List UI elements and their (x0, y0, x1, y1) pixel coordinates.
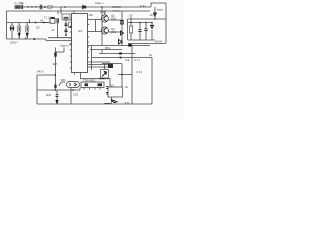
wire emitter Q1 (108, 19, 122, 21)
svg-text:230V~: 230V~ (10, 41, 19, 45)
wire bottom-right rail (128, 43, 166, 45)
resistor R4 (129, 23, 132, 41)
rectifier box D8 (101, 64, 109, 79)
wire rail 75 (37, 74, 56, 76)
transformer T1 (42, 16, 58, 38)
wire IC top stub (73, 11, 75, 14)
wire regulator feed (81, 75, 111, 88)
svg-text:D3: D3 (36, 26, 40, 30)
IC U3 (80, 78, 104, 90)
node J14 (43, 22, 45, 24)
node J12 (54, 74, 56, 76)
wire drop (118, 64, 132, 88)
inductor L2 (112, 6, 121, 8)
node J8 (119, 52, 122, 54)
node J4 (128, 44, 132, 47)
capacitor C5 (138, 23, 141, 41)
bus staircase (88, 46, 153, 71)
node J13 (151, 22, 153, 24)
transistor Q2 (101, 27, 116, 34)
wire secondary box top edge (128, 18, 167, 20)
svg-text:TDA 4601: TDA 4601 (83, 78, 96, 82)
wire rail into IC pin b (46, 39, 72, 41)
svg-text:C1: C1 (20, 1, 24, 5)
wire left bottom rail (7, 38, 47, 40)
svg-text:MAIN: MAIN (155, 40, 162, 44)
svg-text:C26: C26 (73, 93, 79, 97)
IC U1 (69, 14, 90, 75)
node J7 (145, 22, 146, 23)
svg-text:C 22: C 22 (100, 10, 106, 14)
svg-text:D5: D5 (129, 14, 133, 18)
wire base Q2 (88, 31, 102, 33)
diode D7 (154, 7, 164, 20)
svg-text:n4: n4 (51, 28, 55, 32)
wire top-right step (151, 3, 166, 7)
wire emitter Q3 (111, 97, 113, 104)
wire opto feed (55, 48, 57, 91)
capacitor C3 (26, 23, 29, 40)
regulator Q3 (106, 83, 122, 97)
node J10 (54, 89, 56, 91)
secondary box bottom rail (128, 39, 155, 41)
svg-text:R41: R41 (46, 93, 52, 97)
node J2 (101, 6, 103, 8)
wire emitter bus (121, 11, 123, 46)
svg-text:D 4x: D 4x (140, 4, 146, 8)
diode opto LED (54, 85, 56, 89)
wire second rail (7, 10, 151, 12)
wire right drop (131, 46, 133, 105)
fuse F1 (15, 2, 24, 9)
secondary box top rail (128, 22, 152, 24)
svg-text:Caps +: Caps + (95, 1, 104, 5)
wire collector Q1 stub (104, 11, 106, 15)
resistor R3 (121, 21, 123, 25)
svg-text:base: base (157, 8, 164, 12)
wire bus to box (102, 63, 122, 65)
wire secondary box left edge (127, 19, 129, 40)
diode D3 (121, 31, 124, 35)
wire emitter Q2 (108, 31, 122, 33)
junction dash (105, 103, 111, 105)
svg-text:IC1: IC1 (78, 29, 83, 33)
wire right border (165, 3, 167, 43)
tick on rail (25, 38, 27, 39)
svg-text:R51: R51 (105, 46, 111, 50)
wire collector bus (101, 7, 103, 46)
diode D1 (40, 5, 42, 10)
svg-text:Caps k: Caps k (60, 44, 69, 48)
svg-text:R9: R9 (89, 13, 93, 17)
svg-text:240 b: 240 b (37, 69, 44, 73)
inductor L1 (27, 6, 37, 8)
svg-text:VR1: VR1 (61, 78, 67, 82)
arrow A1 (111, 100, 117, 103)
wire left border (6, 11, 8, 39)
capacitor C1 (20, 1, 24, 9)
switch S1 (29, 20, 31, 23)
resistor R2 (58, 7, 70, 20)
node J11 (72, 89, 74, 91)
svg-text:C 41: C 41 (136, 70, 142, 74)
wire rail into IC pin a (48, 37, 72, 39)
resistor R5 (54, 53, 56, 57)
wire caps stub (56, 48, 65, 53)
optocoupler U2 (67, 82, 80, 88)
capacitor C10 (65, 20, 68, 36)
varistor RV1 (10, 23, 14, 40)
wire base link (95, 20, 97, 32)
bottom left riser (36, 75, 38, 104)
svg-text:IC3: IC3 (125, 58, 130, 62)
svg-text:w 17: w 17 (134, 58, 140, 62)
capacitor C7 (56, 90, 59, 104)
diode cluster D4 (119, 40, 123, 45)
node J9 (121, 74, 123, 76)
svg-text:4k7: 4k7 (53, 62, 58, 66)
node J0 (44, 6, 46, 8)
node J5 (130, 22, 131, 23)
node J1 (64, 6, 66, 8)
node J6 (139, 22, 140, 23)
wire lower long rail (88, 45, 150, 47)
transistor Q1 (101, 14, 116, 23)
diode D2 (82, 5, 87, 8)
capacitor C6 (144, 23, 147, 41)
capacitor C2 (18, 23, 21, 40)
wire stub (130, 17, 132, 23)
svg-text:T1 L3: T1 L3 (44, 16, 52, 20)
wire base Q1 (88, 19, 102, 21)
thermistor arc (59, 82, 65, 86)
resistor R1 (48, 6, 53, 8)
wire bottom rail 104 (37, 103, 152, 105)
node J3 (33, 38, 35, 40)
svg-text:Q3: Q3 (110, 83, 114, 87)
wire right border bottom (151, 58, 153, 105)
wire bottom rail 90 (37, 89, 80, 91)
diode D6 (151, 23, 154, 41)
wire top rail (15, 6, 151, 8)
wire left mid rail (7, 22, 49, 24)
wire opto drop (70, 88, 72, 105)
node J2b (101, 10, 103, 12)
